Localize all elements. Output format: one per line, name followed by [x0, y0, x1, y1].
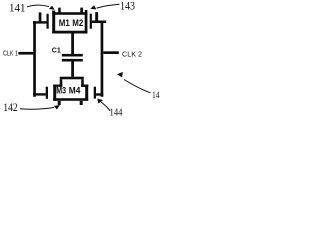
svg-text:CLK 1: CLK 1	[3, 51, 18, 58]
svg-text:CLK 2: CLK 2	[122, 50, 142, 59]
svg-text:141: 141	[9, 1, 26, 15]
svg-text:143: 143	[120, 0, 135, 13]
svg-text:144: 144	[110, 108, 123, 119]
svg-text:C1: C1	[52, 47, 61, 54]
svg-text:14: 14	[152, 91, 160, 101]
svg-text:M2: M2	[72, 18, 83, 28]
svg-text:M4: M4	[69, 85, 81, 95]
svg-text:142: 142	[3, 102, 18, 114]
svg-text:M3: M3	[56, 85, 66, 95]
svg-text:M1: M1	[59, 18, 70, 28]
